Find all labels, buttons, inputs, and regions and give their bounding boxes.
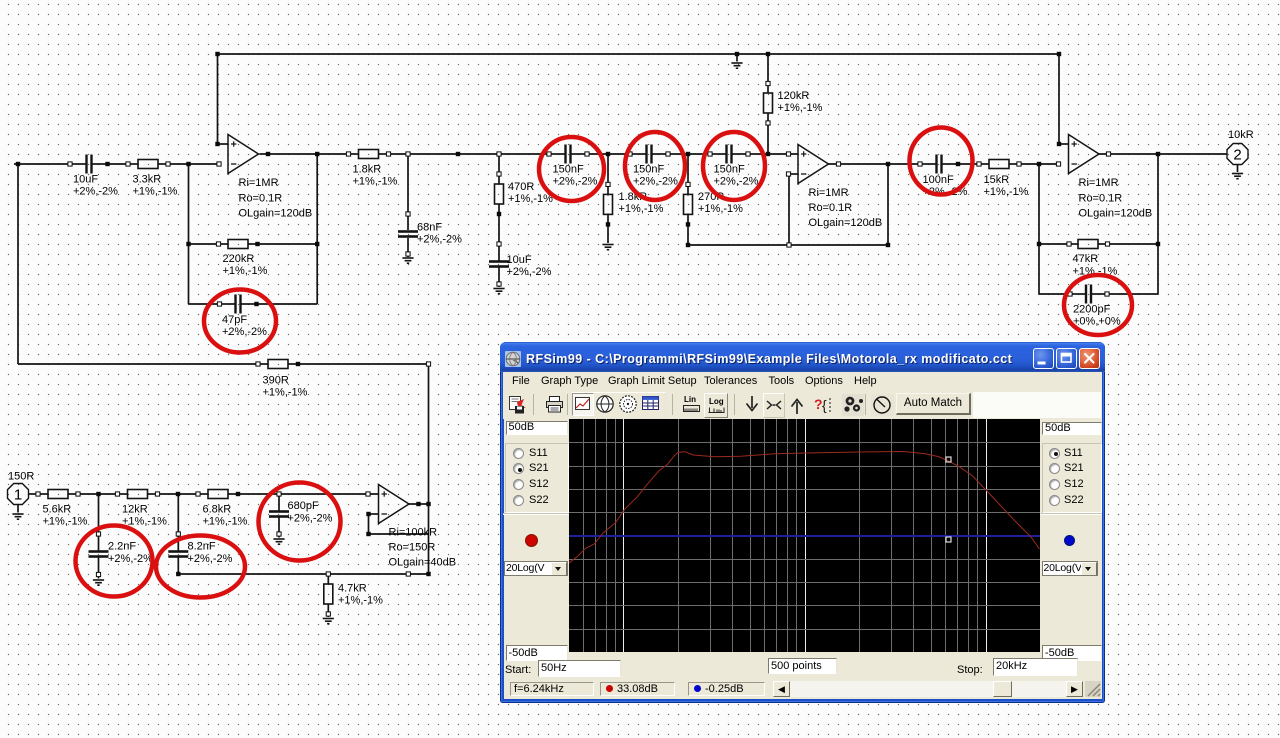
svg-text:+1%,-1%: +1%,-1% [778, 102, 823, 114]
svg-text:+2%,-2%: +2%,-2% [633, 176, 678, 188]
svg-text:6.8kR: 6.8kR [203, 504, 232, 516]
svg-text:2: 2 [1233, 146, 1241, 163]
svg-text:150R: 150R [8, 471, 34, 483]
svg-text:OLgain=40dB: OLgain=40dB [389, 557, 457, 569]
svg-text:12kR: 12kR [122, 504, 148, 516]
svg-text:+1%,-1%: +1%,-1% [338, 595, 383, 607]
svg-text:2.2nF: 2.2nF [108, 541, 136, 553]
svg-text:220kR: 220kR [223, 253, 255, 265]
svg-text:Ri=1MR: Ri=1MR [239, 177, 279, 189]
svg-text:Ri=1MR: Ri=1MR [1079, 177, 1119, 189]
svg-text:680pF: 680pF [288, 500, 319, 512]
svg-text:Ro=0.1R: Ro=0.1R [809, 202, 853, 214]
svg-text:10kR: 10kR [1228, 129, 1254, 141]
svg-text:47kR: 47kR [1073, 253, 1099, 265]
svg-text:Ro=150R: Ro=150R [389, 542, 436, 554]
svg-text:OLgain=120dB: OLgain=120dB [809, 217, 883, 229]
svg-text:+1%,-1%: +1%,-1% [353, 176, 398, 188]
svg-text:+2%,-2%: +2%,-2% [73, 186, 118, 198]
svg-text:+2%,-2%: +2%,-2% [108, 553, 153, 565]
svg-text:OLgain=120dB: OLgain=120dB [239, 208, 313, 220]
svg-text:Log: Log [709, 397, 724, 406]
svg-text:+1%,-1%: +1%,-1% [203, 516, 248, 528]
svg-text:100nF: 100nF [923, 174, 954, 186]
svg-text:+2%,-2%: +2%,-2% [507, 266, 552, 278]
svg-text:15kR: 15kR [984, 174, 1010, 186]
svg-text:10uF: 10uF [507, 254, 532, 266]
svg-text:OLgain=120dB: OLgain=120dB [1079, 208, 1153, 220]
svg-text:+1%,-1%: +1%,-1% [43, 516, 88, 528]
svg-text:4.7kR: 4.7kR [338, 583, 367, 595]
svg-text:+1%,-1%: +1%,-1% [698, 203, 743, 215]
svg-text:Ri=100kR: Ri=100kR [389, 527, 438, 539]
svg-text:150nF: 150nF [553, 164, 584, 176]
svg-text:8.2nF: 8.2nF [188, 541, 216, 553]
svg-text:Ro=0.1R: Ro=0.1R [1079, 192, 1123, 204]
svg-text:1.8kR: 1.8kR [353, 164, 382, 176]
svg-text:470R: 470R [508, 181, 534, 193]
svg-text:2200pF: 2200pF [1073, 304, 1111, 316]
svg-text:+1%,-1%: +1%,-1% [263, 387, 308, 399]
svg-text:Ri=1MR: Ri=1MR [809, 187, 849, 199]
svg-text:1: 1 [14, 486, 22, 503]
svg-text:+1%,-1%: +1%,-1% [619, 203, 664, 215]
svg-text:120kR: 120kR [778, 90, 810, 102]
svg-text:+2%,-2%: +2%,-2% [417, 234, 462, 246]
svg-text:Ro=0.1R: Ro=0.1R [239, 192, 283, 204]
svg-text:+2%,-2%: +2%,-2% [288, 513, 333, 525]
svg-text:150nF: 150nF [714, 164, 745, 176]
svg-text:+2%,-2%: +2%,-2% [714, 176, 759, 188]
svg-text:68nF: 68nF [417, 222, 442, 234]
svg-text:150nF: 150nF [633, 164, 664, 176]
svg-text:+1%,-1%: +1%,-1% [133, 186, 178, 198]
svg-text:{: { [822, 397, 827, 413]
svg-text:10uF: 10uF [73, 174, 98, 186]
svg-text:+1%,-1%: +1%,-1% [223, 265, 268, 277]
svg-text:Lin: Lin [684, 395, 696, 404]
svg-text:390R: 390R [263, 375, 289, 387]
svg-text:+1%,-1%: +1%,-1% [984, 186, 1029, 198]
svg-text:+0%,+0%: +0%,+0% [1073, 316, 1121, 328]
svg-text:+1%,-1%: +1%,-1% [508, 193, 553, 205]
svg-text:+2%,-2%: +2%,-2% [188, 553, 233, 565]
svg-text:47pF: 47pF [222, 314, 247, 326]
svg-text:5.6kR: 5.6kR [43, 504, 72, 516]
svg-text:+2%,-2%: +2%,-2% [553, 176, 598, 188]
svg-text:3.3kR: 3.3kR [133, 174, 162, 186]
svg-text:+2%,-2%: +2%,-2% [222, 326, 267, 338]
